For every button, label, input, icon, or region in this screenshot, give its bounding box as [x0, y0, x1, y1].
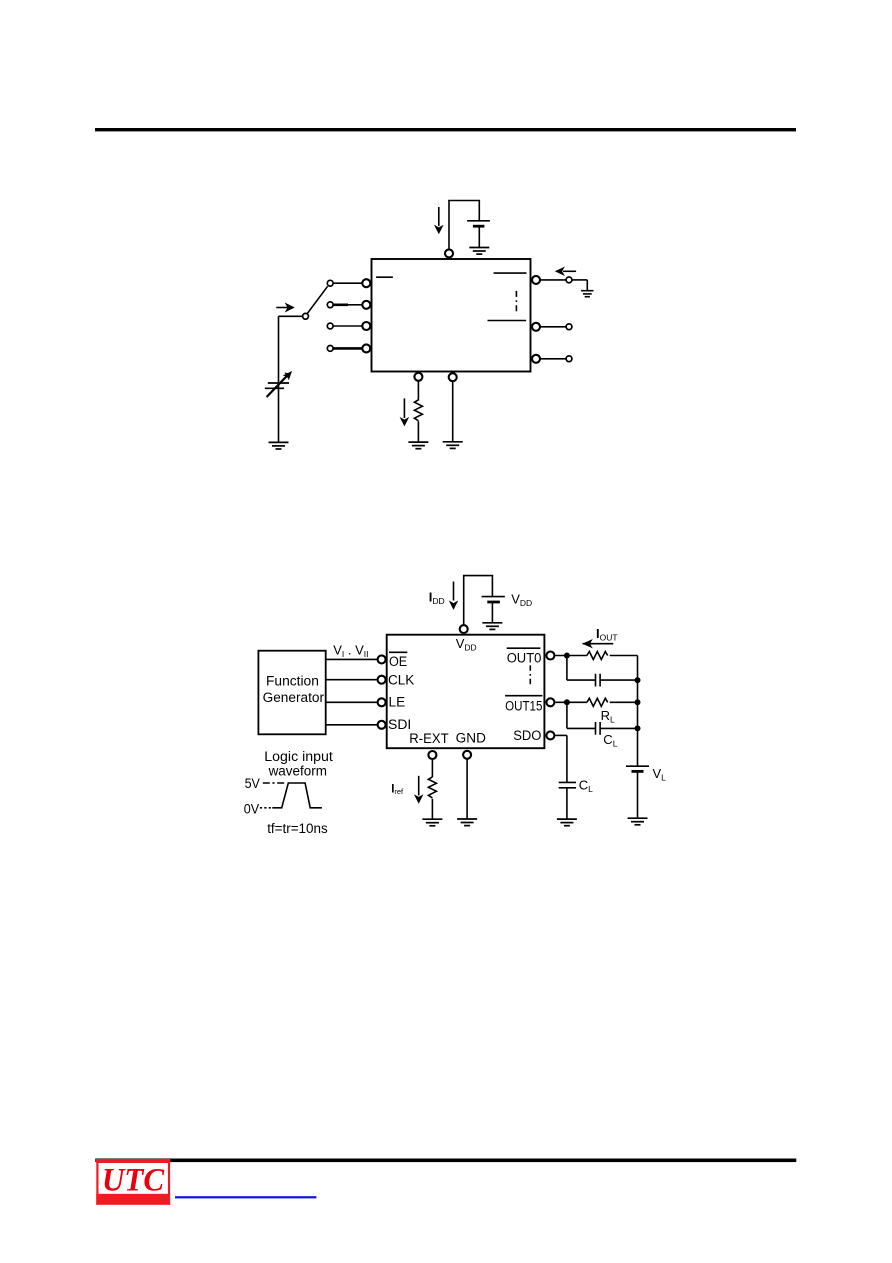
svg-text:VI . VII: VI . VII	[333, 642, 368, 659]
svg-text:OE: OE	[389, 654, 407, 669]
svg-text:LE: LE	[389, 695, 406, 710]
svg-text:Iref: Iref	[391, 783, 404, 796]
svg-text:SDI: SDI	[388, 717, 411, 732]
svg-text:5V: 5V	[245, 776, 260, 791]
svg-text:CLK: CLK	[388, 673, 414, 688]
svg-text:Logic input: Logic input	[264, 749, 333, 764]
svg-text:CL: CL	[579, 778, 593, 795]
svg-text:GND: GND	[456, 731, 486, 746]
svg-text:0V: 0V	[244, 802, 259, 817]
svg-text:VDD: VDD	[456, 636, 477, 653]
svg-text:IOUT: IOUT	[596, 626, 618, 643]
svg-text:OUT15: OUT15	[505, 699, 542, 714]
svg-text:RL: RL	[601, 708, 615, 725]
svg-text:UTC: UTC	[102, 1163, 165, 1199]
svg-text:IDD: IDD	[429, 590, 445, 607]
svg-text:R-EXT: R-EXT	[409, 731, 448, 746]
svg-text:Function: Function	[266, 673, 319, 688]
svg-text:OUT0: OUT0	[507, 650, 542, 665]
svg-text:waveform: waveform	[268, 764, 327, 779]
svg-text:VDD: VDD	[511, 591, 532, 608]
svg-text:tf=tr=10ns: tf=tr=10ns	[267, 821, 328, 836]
svg-text:Generator: Generator	[263, 690, 325, 705]
svg-text:SDO: SDO	[513, 728, 541, 743]
svg-text:VL: VL	[653, 766, 667, 783]
svg-text:CL: CL	[603, 732, 617, 749]
